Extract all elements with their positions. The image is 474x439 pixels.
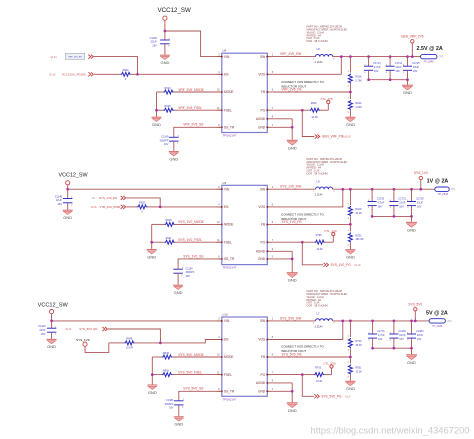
svg-text:GND: GND — [403, 90, 412, 95]
wire row1 to EN junction — [126, 198, 160, 207]
svg-text:C1714: C1714 — [373, 62, 381, 65]
wire PG branch down — [302, 110, 314, 136]
svg-text:2: 2 — [182, 406, 184, 408]
value label C1484 3300PF 16V — [165, 399, 174, 410]
power pin SYS_1V0 — [419, 176, 422, 189]
capacitor C1776 — [368, 321, 377, 348]
value label R919 34.2K — [355, 208, 362, 215]
svg-text:3: 3 — [218, 54, 220, 56]
svg-text:1: 1 — [348, 98, 350, 100]
svg-text:81,20: 81,20 — [355, 264, 362, 267]
ground below input cap — [47, 339, 57, 349]
svg-text:0: 0 — [125, 78, 127, 81]
svg-text:81,8: 81,8 — [345, 396, 350, 399]
off-page connector SYS_1V0_PG — [324, 263, 329, 267]
svg-text:2: 2 — [348, 377, 350, 379]
svg-text:SYS_5V0_PG: SYS_5V0_PG — [321, 395, 342, 399]
svg-text:5: 5 — [272, 337, 274, 339]
svg-text:22UF: 22UF — [417, 334, 424, 337]
svg-text:1: 1 — [272, 389, 274, 391]
wire output cap bottom rail — [372, 215, 411, 217]
svg-text:SYS_5V0_FB: SYS_5V0_FB — [282, 353, 302, 357]
pin SW (2) of U9 — [260, 187, 274, 192]
svg-text:92.35: 92.35 — [49, 74, 56, 77]
svg-text:GND: GND — [258, 390, 266, 394]
svg-text:16V: 16V — [413, 70, 418, 73]
op-amp/regulator IC U9 TPS62147 — [222, 181, 267, 270]
svg-text:R942: R942 — [123, 69, 130, 72]
svg-text:SYS_5V0_SS: SYS_5V0_SS — [183, 387, 204, 391]
wire AGND to GND — [291, 251, 293, 272]
svg-text:22UF: 22UF — [56, 199, 63, 202]
wire AGND — [273, 382, 292, 384]
svg-text:DCR : 38.7mOHM: DCR : 38.7mOHM — [307, 39, 328, 43]
net label GEN_VRF_2V5 — [401, 35, 424, 39]
svg-text:10.0K: 10.0K — [316, 380, 323, 383]
svg-text:FSEL: FSEL — [224, 240, 232, 244]
svg-text:GND: GND — [288, 145, 297, 150]
wire row1 to EN junction — [94, 57, 138, 75]
svg-text:SS_TR: SS_TR — [224, 126, 235, 130]
svg-text:VIN: VIN — [224, 187, 230, 191]
svg-text:VIN: VIN — [224, 55, 230, 59]
svg-text:VCC12UX_PG200: VCC12UX_PG200 — [62, 73, 86, 77]
net label SYS_1V0 — [414, 171, 428, 175]
svg-text:VCC12_SW: VCC12_SW — [59, 173, 89, 179]
svg-text:C1150: C1150 — [186, 267, 194, 270]
junction output rail — [367, 55, 370, 58]
net label SYS_5V0_SS — [183, 387, 204, 391]
svg-text:22UF: 22UF — [39, 329, 46, 332]
svg-text:C1148: C1148 — [150, 37, 158, 40]
value label R923 182.4R — [355, 234, 363, 241]
power pin GEN_VRF_2V5 — [411, 40, 414, 57]
junction VOS — [341, 188, 344, 191]
svg-text:10.0K: 10.0K — [316, 248, 323, 251]
pin SW (2) of U8 — [260, 54, 274, 59]
svg-text:PG: PG — [260, 373, 265, 377]
ground IC — [287, 273, 298, 283]
wire output cap bottom rail — [373, 347, 412, 349]
junction AGND/GND — [291, 390, 294, 393]
svg-text:34.2K: 34.2K — [355, 212, 362, 215]
svg-text:R930: R930 — [311, 102, 318, 105]
svg-text:2: 2 — [390, 340, 392, 342]
net reference 92.35 — [49, 74, 56, 77]
capacitor C1483 — [407, 321, 416, 348]
svg-text:1: 1 — [272, 257, 274, 259]
wire MODE/FSEL to ground — [151, 357, 153, 385]
net label VCC12UX_PG200 — [62, 73, 86, 77]
svg-text:16V: 16V — [378, 205, 383, 208]
svg-text:CONNECT VOS DIRECTLY TO: CONNECT VOS DIRECTLY TO — [281, 212, 325, 216]
pin SS_TR (8) of U9 — [217, 257, 235, 262]
pin VOS (5) of U9 — [258, 205, 273, 210]
svg-text:R926: R926 — [355, 76, 362, 79]
svg-text:CTL_1V0: CTL_1V0 — [324, 229, 337, 233]
svg-text:VRF_2V5_FB: VRF_2V5_FB — [282, 88, 302, 92]
svg-text:2.2UH: 2.2UH — [315, 193, 323, 197]
pin FB (6) of U9 — [261, 222, 274, 227]
ground divider — [345, 381, 355, 391]
svg-text:2: 2 — [368, 207, 370, 209]
svg-text:GND: GND — [147, 254, 156, 259]
svg-text:SYS_1V0_FB: SYS_1V0_FB — [282, 220, 302, 224]
svg-text:VRF_2V5_FSEL: VRF_2V5_FSEL — [178, 106, 202, 110]
resistor R932 — [126, 205, 160, 209]
pin SW (2) of U10 — [260, 319, 274, 324]
svg-text:4: 4 — [218, 205, 220, 207]
wire PG — [273, 109, 303, 111]
net label CTL_1V0 — [324, 229, 337, 233]
svg-text:TP_2646: TP_2646 — [432, 325, 443, 328]
svg-text:SYS_5V0_EN: SYS_5V0_EN — [79, 327, 97, 331]
svg-text:2.2UH: 2.2UH — [315, 60, 323, 64]
svg-text:2: 2 — [407, 207, 409, 209]
svg-text:GND: GND — [346, 255, 355, 260]
net label SYS_1V0_EN — [99, 196, 117, 200]
wire inductor to output rail — [333, 188, 435, 190]
svg-text:2: 2 — [386, 72, 388, 74]
junction FB — [349, 223, 352, 226]
resistor R918 — [152, 219, 222, 226]
svg-text:R951: R951 — [355, 367, 362, 370]
svg-text:2: 2 — [333, 323, 335, 325]
resistor R942 — [94, 72, 138, 76]
svg-text:GND: GND — [288, 408, 297, 413]
junction MODE/FSEL ground — [151, 373, 154, 376]
svg-text:R928: R928 — [165, 105, 172, 108]
svg-text:C1140: C1140 — [38, 325, 46, 328]
svg-text:4: 4 — [218, 337, 220, 339]
junction output rail — [393, 188, 396, 191]
ground output caps — [406, 216, 417, 232]
net label SYS_1V0_PG — [331, 263, 352, 267]
value label C1714 4.7UF 16V — [373, 62, 381, 73]
net label VCC12_SW — [38, 302, 69, 308]
power pin CTL_2V5 — [320, 101, 330, 111]
svg-text:11: 11 — [217, 240, 220, 242]
net reference SL26 — [91, 206, 97, 209]
svg-text:2: 2 — [177, 143, 179, 145]
net label GEN_VRF_PG — [322, 135, 344, 139]
net label SYS_5V0_EN — [79, 327, 97, 331]
wire VIN rail — [68, 188, 222, 190]
svg-text:10: 10 — [217, 355, 220, 357]
svg-text:1: 1 — [348, 362, 350, 364]
pin SS_TR (8) of U10 — [217, 389, 235, 394]
off-page connector SYS_5V0_PG — [314, 394, 319, 398]
svg-text:R918: R918 — [166, 219, 173, 222]
svg-text:C1721: C1721 — [399, 198, 407, 201]
svg-text:TP3: TP3 — [451, 188, 456, 191]
svg-text:16V: 16V — [169, 407, 174, 410]
svg-text:L7: L7 — [317, 311, 321, 315]
pin VOS (5) of U8 — [258, 72, 273, 77]
power pin CTL_5V0 — [324, 365, 333, 375]
wire FB to divider — [273, 223, 351, 225]
svg-text:4.7UF: 4.7UF — [378, 201, 385, 204]
svg-text:10.0K: 10.0K — [311, 116, 318, 119]
pin VIN (3) of U10 — [217, 319, 230, 324]
svg-text:GND: GND — [148, 390, 157, 395]
net label CTL_5V0 — [323, 361, 336, 365]
parts info text block — [307, 25, 348, 44]
resistor R946 — [109, 341, 161, 345]
ground below input cap — [160, 55, 170, 65]
svg-text:C1776: C1776 — [377, 330, 385, 333]
svg-text:9: 9 — [272, 381, 274, 383]
wire AGND — [273, 250, 292, 252]
svg-text:2: 2 — [348, 112, 350, 114]
svg-text:SYS_1V0_EN: SYS_1V0_EN — [99, 196, 117, 200]
svg-text:SL26: SL26 — [91, 206, 97, 209]
junction AGND/GND — [291, 126, 294, 129]
svg-text:SYS_1V8: SYS_1V8 — [76, 338, 90, 342]
svg-text:9: 9 — [272, 117, 274, 119]
svg-text:1: 1 — [178, 136, 180, 138]
svg-text:R919: R919 — [355, 208, 362, 211]
capacitor C1484 — [174, 399, 185, 416]
svg-text:VCC12_SW: VCC12_SW — [158, 7, 192, 14]
svg-text:SYS_1V0_FSEL: SYS_1V0_FSEL — [178, 238, 202, 242]
value label C1745 22UF 16V — [412, 62, 420, 73]
svg-text:2: 2 — [348, 245, 350, 247]
junction at input cap — [66, 188, 69, 191]
svg-text:2: 2 — [272, 319, 274, 321]
svg-text:1: 1 — [183, 399, 185, 401]
net label SYS_5V0_SW — [280, 316, 302, 320]
svg-text:FB: FB — [261, 223, 265, 227]
svg-text:16V: 16V — [378, 338, 383, 341]
svg-text:5: 5 — [272, 72, 274, 74]
power pin CTL_1V0 — [325, 233, 335, 243]
svg-text:1: 1 — [348, 230, 350, 232]
svg-text:SYS_1V0_MODE: SYS_1V0_MODE — [178, 220, 204, 224]
capacitor C1741 — [386, 57, 395, 80]
svg-text:GND: GND — [174, 422, 183, 427]
value label C1721 22UF 16V — [399, 198, 407, 209]
svg-text:C1146: C1146 — [55, 195, 63, 198]
wire VIN rail — [52, 320, 222, 322]
svg-text:9: 9 — [272, 249, 274, 251]
wire SS_TR to soft-start cap — [179, 391, 222, 401]
net label SYS_1V0_SS — [183, 254, 204, 258]
svg-text:GEN_VRF_2V5: GEN_VRF_2V5 — [401, 35, 424, 39]
svg-text:GND: GND — [346, 122, 355, 127]
svg-text:GND: GND — [169, 156, 178, 161]
inductor L7 2.2uH — [313, 311, 335, 328]
ground divider — [345, 250, 355, 260]
resistor R944 — [157, 87, 222, 94]
svg-text:TP_2646: TP_2646 — [424, 61, 435, 64]
svg-text:C1728: C1728 — [416, 198, 424, 201]
wire inductor to output rail — [333, 320, 429, 322]
net label SYS_1V0_FSEL — [178, 238, 202, 242]
pin PG (7) of U9 — [260, 240, 273, 245]
wire EN to IC — [138, 73, 222, 75]
pin FSEL (11) of U9 — [217, 240, 232, 245]
svg-text:16V: 16V — [164, 143, 169, 146]
net label CTL_2V5 — [320, 97, 333, 101]
svg-text:R766: R766 — [316, 234, 323, 237]
net reference PG sheet refs — [342, 136, 352, 139]
svg-text:C1741: C1741 — [395, 62, 403, 65]
junction MODE/FSEL ground — [150, 241, 153, 244]
ground IC — [287, 403, 298, 413]
svg-text:VRF_2V5_MODE: VRF_2V5_MODE — [178, 88, 204, 92]
power symbol VCC12_SW — [50, 310, 54, 321]
ground below input cap — [63, 210, 73, 220]
svg-text:FB: FB — [261, 90, 265, 94]
ground soft-start cap — [173, 285, 183, 295]
junction cap bottom rail — [371, 347, 413, 350]
svg-text:EN: EN — [224, 338, 229, 342]
svg-text:2: 2 — [55, 334, 57, 336]
svg-text:SL34: SL34 — [66, 328, 72, 331]
test point TP2 TP_2646 — [421, 54, 444, 63]
svg-text:MODE: MODE — [224, 355, 234, 359]
svg-text:GND: GND — [152, 122, 161, 127]
value label R946 10.0R — [126, 338, 133, 350]
wire GND — [273, 126, 292, 128]
net label SYS_5V0_FB — [282, 353, 302, 357]
svg-text:2: 2 — [348, 350, 350, 352]
svg-text:24: 24 — [92, 197, 95, 200]
svg-text:TP4: TP4 — [447, 320, 452, 323]
svg-text:C1745: C1745 — [412, 62, 420, 65]
svg-text:44.34: 44.34 — [50, 56, 57, 59]
svg-text:AGND: AGND — [256, 250, 266, 254]
resistor R928 — [157, 105, 222, 112]
wire PG branch down — [302, 242, 323, 265]
value label R924 1.82K — [355, 102, 362, 109]
svg-text:C1149: C1149 — [161, 136, 169, 139]
junction PG — [301, 373, 304, 376]
svg-text:3: 3 — [218, 319, 220, 321]
wire AGND to GND — [291, 383, 293, 402]
wire SW to inductor — [273, 188, 316, 190]
svg-text:45.3K: 45.3K — [355, 344, 362, 347]
pin EN (4) of U9 — [217, 205, 229, 210]
net label VRF_2V5_SW — [280, 52, 302, 56]
svg-text:VIN: VIN — [224, 319, 230, 323]
resistor R766 — [302, 234, 325, 251]
off-page connector EN row 2 — [121, 205, 126, 209]
svg-text:2: 2 — [71, 204, 73, 206]
svg-text:22UF: 22UF — [417, 201, 424, 204]
capacitor C1148 — [160, 31, 170, 55]
svg-text:2: 2 — [407, 340, 409, 342]
svg-text:1: 1 — [348, 71, 350, 73]
capacitor C1728 — [407, 189, 416, 216]
resistor R921 — [152, 237, 222, 244]
pin FSEL (11) of U8 — [217, 108, 232, 113]
capacitor C1718 — [368, 189, 377, 216]
svg-text:25V: 25V — [58, 203, 63, 206]
svg-text:https://blog.csdn.net/weixin_4: https://blog.csdn.net/weixin_43467200 — [311, 425, 470, 435]
net label VCC12_SW — [158, 7, 192, 14]
junction EN — [136, 73, 139, 76]
wire output cap bottom rail — [369, 79, 408, 81]
junction PG — [301, 109, 304, 112]
net reference — [0, 0, 1, 1]
svg-text:3300PF: 3300PF — [165, 403, 174, 406]
pin SS_TR (8) of U8 — [217, 125, 235, 130]
svg-text:TPS62147: TPS62147 — [222, 134, 237, 138]
net label SYS_1V8 — [76, 338, 90, 342]
svg-text:2: 2 — [168, 45, 170, 47]
svg-text:3: 3 — [218, 187, 220, 189]
wire FB to divider — [273, 356, 351, 358]
test point TP4 TP_2646 — [429, 319, 452, 328]
value label C1728 22UF 16V — [416, 198, 424, 209]
wire VOS to inductor output — [273, 189, 343, 207]
resistor R941 — [152, 369, 222, 376]
pin PG (7) of U10 — [260, 372, 273, 377]
svg-text:2: 2 — [333, 58, 335, 60]
svg-text:6: 6 — [272, 355, 274, 357]
net reference PG sheet refs — [345, 396, 350, 399]
svg-text:TP_2646: TP_2646 — [438, 193, 449, 196]
svg-text:1: 1 — [169, 38, 171, 40]
svg-text:MODE: MODE — [224, 223, 234, 227]
svg-text:SYS_5V0_SW: SYS_5V0_SW — [280, 316, 302, 320]
svg-text:16V: 16V — [374, 70, 379, 73]
svg-text:VOS: VOS — [258, 338, 265, 342]
svg-text:SS_TR: SS_TR — [224, 390, 235, 394]
svg-text:16V: 16V — [417, 205, 422, 208]
svg-text:R923: R923 — [355, 234, 362, 237]
svg-text:10.0R: 10.0R — [126, 347, 133, 350]
capacitor C1714 — [364, 57, 373, 80]
svg-text:R944: R944 — [165, 87, 172, 90]
pin MODE (10) of U10 — [217, 355, 234, 360]
output voltage text 2.5V @ 2A — [417, 46, 443, 52]
svg-text:SYS_5V0_MODE: SYS_5V0_MODE — [178, 353, 204, 357]
svg-text:10: 10 — [217, 90, 220, 92]
svg-text:R940: R940 — [163, 352, 170, 355]
svg-text:EN: EN — [224, 73, 229, 77]
svg-text:PG: PG — [260, 240, 265, 244]
svg-text:2: 2 — [348, 86, 350, 88]
svg-text:22UF: 22UF — [413, 66, 420, 69]
output voltage text 1V @ 2A — [427, 179, 449, 185]
svg-text:SYS_1V0: SYS_1V0 — [414, 171, 428, 175]
wire SW to inductor — [273, 320, 316, 322]
svg-text:C1483: C1483 — [416, 330, 424, 333]
svg-text:GND: GND — [160, 60, 169, 65]
resistor R951 — [348, 357, 353, 381]
svg-text:16V: 16V — [396, 70, 401, 73]
junction output rail — [371, 320, 374, 323]
svg-text:VRF_2V5_SW: VRF_2V5_SW — [280, 52, 302, 56]
svg-text:6: 6 — [272, 222, 274, 224]
pin MODE (10) of U9 — [217, 222, 234, 227]
wire SS_TR to soft-start cap — [174, 127, 222, 137]
svg-text:GND: GND — [258, 126, 266, 130]
ground soft-start cap — [174, 417, 184, 427]
svg-text:R946: R946 — [126, 338, 133, 341]
svg-text:C1482: C1482 — [399, 330, 407, 333]
off-page connector EN row 1 — [88, 55, 93, 59]
net label SYS_5V0 — [408, 303, 422, 307]
svg-text:2: 2 — [272, 187, 274, 189]
svg-text:2: 2 — [348, 218, 350, 220]
svg-text:8: 8 — [218, 257, 220, 259]
off-page connector GEN_VRF_PG — [315, 135, 320, 139]
wire EN to IC — [160, 206, 222, 208]
